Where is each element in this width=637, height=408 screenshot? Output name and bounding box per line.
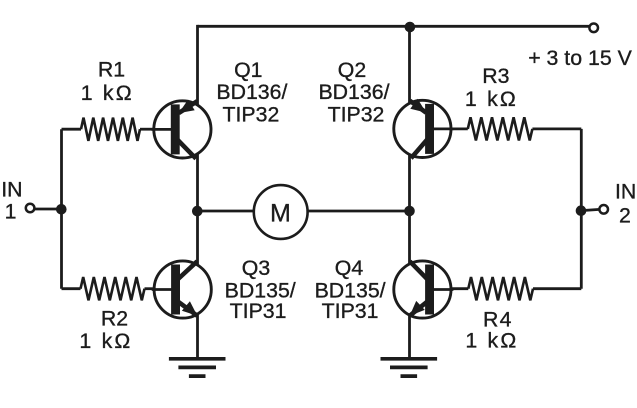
svg-text:R1: R1	[98, 57, 125, 81]
svg-text:2: 2	[619, 203, 631, 227]
svg-text:1: 1	[5, 199, 17, 223]
svg-text:1 kΩ: 1 kΩ	[465, 329, 518, 353]
svg-text:IN: IN	[615, 180, 636, 204]
svg-text:Q3: Q3	[242, 256, 270, 280]
svg-text:BD136/: BD136/	[216, 80, 287, 104]
svg-text:1 kΩ: 1 kΩ	[79, 329, 132, 353]
svg-text:R2: R2	[101, 307, 128, 331]
svg-text:R3: R3	[482, 64, 509, 88]
svg-text:+ 3 to 15 V: + 3 to 15 V	[528, 46, 632, 70]
svg-text:TIP32: TIP32	[328, 103, 385, 127]
svg-text:Q4: Q4	[335, 256, 364, 280]
svg-text:1 kΩ: 1 kΩ	[465, 87, 518, 111]
svg-text:1 kΩ: 1 kΩ	[81, 81, 134, 105]
svg-text:M: M	[270, 199, 291, 227]
svg-text:TIP31: TIP31	[230, 299, 287, 323]
svg-text:IN: IN	[1, 178, 22, 202]
svg-text:Q1: Q1	[234, 58, 262, 82]
svg-text:Q2: Q2	[338, 58, 366, 82]
svg-text:TIP32: TIP32	[222, 103, 279, 127]
svg-text:TIP31: TIP31	[322, 299, 379, 323]
svg-text:BD136/: BD136/	[318, 80, 389, 104]
